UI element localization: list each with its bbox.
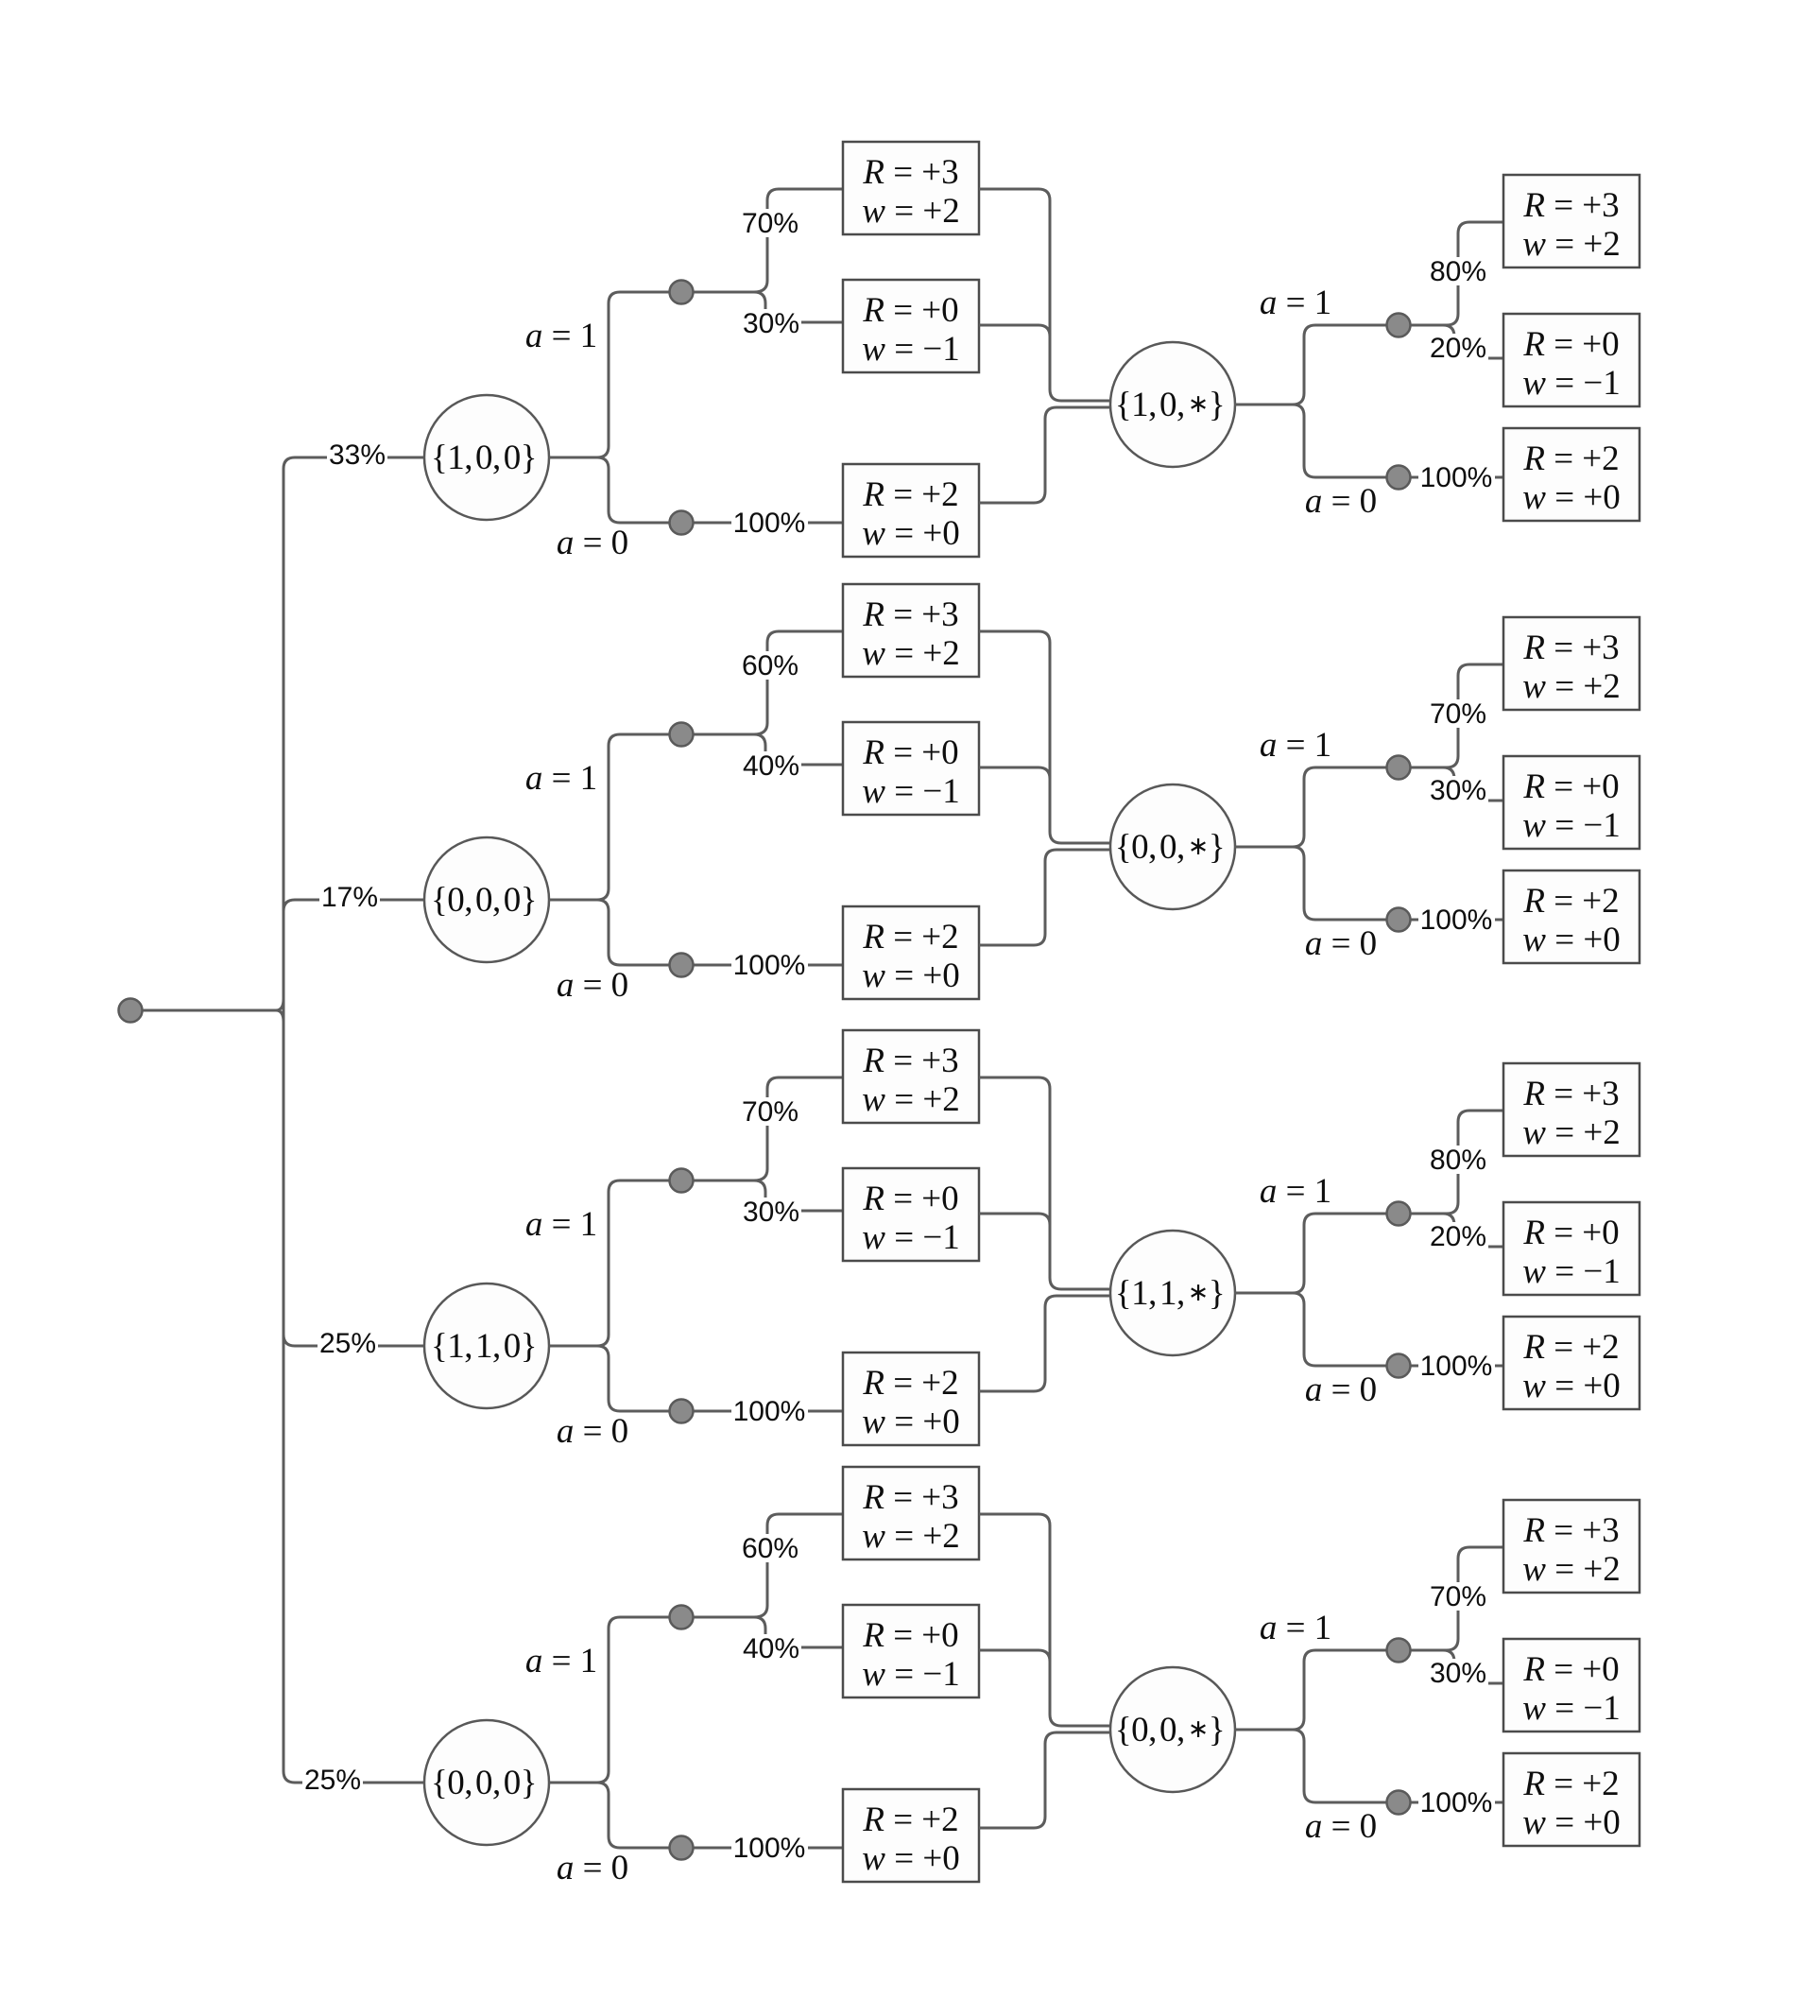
svg-text:w = +0: w = +0 (862, 514, 959, 553)
svg-text:70%: 70% (1430, 698, 1486, 730)
svg-text:100%: 100% (733, 1396, 806, 1427)
svg-text:R = +3: R = +3 (862, 153, 958, 192)
svg-text:R = +2: R = +2 (862, 918, 958, 956)
label 100% level2 branch 3 (1418, 1352, 1495, 1380)
svg-text:80%: 80% (1430, 1145, 1486, 1176)
svg-text:a = 0: a = 0 (1305, 1807, 1377, 1846)
wire box3 to next state branch 3 (979, 1296, 1111, 1391)
outcome box R=+0 w=-1 level2 branch 3 (1503, 1202, 1640, 1295)
outcome box R=+2 w=+0 level2 branch 2 (1503, 870, 1640, 963)
svg-text:R = +3: R = +3 (1522, 1511, 1619, 1550)
wire box1 to next state branch 1 (979, 189, 1111, 401)
svg-text:w = +2: w = +2 (862, 1080, 959, 1119)
svg-text:w = +2: w = +2 (1522, 225, 1620, 264)
svg-text:100%: 100% (1420, 1351, 1493, 1382)
wire 70% outcome level2 branch 2 (1411, 664, 1503, 767)
svg-text:a = 1: a = 1 (1260, 726, 1331, 765)
wire a=0 branch 1 (597, 457, 843, 523)
svg-text:60%: 60% (742, 1533, 798, 1564)
svg-text:R = +3: R = +3 (1522, 629, 1619, 667)
label 30% branch 1 (741, 309, 801, 337)
wire 30% outcome level2 branch 2 (1411, 767, 1503, 801)
label 100% a=0 branch 2 (731, 951, 808, 979)
label 70% branch 1 (740, 209, 800, 237)
chance dot a=1 branch 1 (670, 281, 694, 304)
svg-text:R = +2: R = +2 (862, 475, 958, 514)
chance dot a=0 branch 3 (670, 1400, 694, 1423)
wire a=1 branch 3 (549, 1180, 756, 1346)
label 25% branch 4 (302, 1766, 363, 1794)
svg-text:w = +0: w = +0 (862, 1403, 959, 1441)
wire root fork (276, 999, 283, 1022)
svg-text:w = −1: w = −1 (1522, 806, 1620, 845)
wire a=1 branch 2 (549, 734, 756, 900)
svg-text:{0,0,∗}: {0,0,∗} (1115, 828, 1225, 867)
svg-text:a = 1: a = 1 (525, 1205, 597, 1244)
wire box3 to next state branch 4 (979, 1732, 1111, 1828)
svg-text:R = +2: R = +2 (862, 1364, 958, 1403)
svg-text:w = +2: w = +2 (862, 634, 959, 673)
chance dot a=1 level2 branch 3 (1387, 1202, 1411, 1226)
svg-text:w = +0: w = +0 (862, 956, 959, 995)
label 33% branch 1 (327, 440, 387, 469)
outcome box R=+3 w=+2 level2 branch 1 (1503, 175, 1640, 267)
wire branch 4 from spine (295, 1782, 424, 1784)
label 80% level2 branch 1 (1428, 257, 1488, 285)
outcome box R=+0 w=-1 level2 branch 1 (1503, 314, 1640, 406)
label 30% level2 branch 4 (1428, 1659, 1488, 1687)
label 40% branch 4 (741, 1634, 801, 1663)
svg-text:w = −1: w = −1 (862, 1655, 959, 1694)
outcome box R=+3 w=+2 level2 branch 3 (1503, 1063, 1640, 1156)
wire 20% outcome level2 branch 3 (1411, 1214, 1503, 1247)
svg-text:R = +0: R = +0 (862, 1180, 958, 1218)
wire box2 to next state branch 3 (979, 1214, 1050, 1225)
label 60% branch 4 (740, 1534, 800, 1562)
chance dot a=0 level2 branch 4 (1387, 1791, 1411, 1815)
svg-text:100%: 100% (1420, 462, 1493, 493)
wire spine (283, 457, 295, 1783)
svg-text:R = +3: R = +3 (862, 1478, 958, 1517)
svg-text:70%: 70% (1430, 1581, 1486, 1612)
root chance node (119, 999, 143, 1023)
wire 80% outcome level2 branch 3 (1411, 1111, 1503, 1214)
chance dot a=1 branch 2 (670, 723, 694, 747)
outcome box R=+2 w=+0 level2 branch 3 (1503, 1317, 1640, 1409)
wire a=0 level2 branch 2 (1293, 847, 1503, 920)
state node {1,<tspan dx="3">1</tspan>,<tspan dx="3" font-size="27" dy="-4">∗</tspan><tspan dy="4">}</tspan> branch 3 (1110, 1231, 1235, 1355)
svg-text:a = 0: a = 0 (557, 1412, 628, 1451)
svg-text:w = −1: w = −1 (1522, 364, 1620, 403)
label 25% branch 3 (318, 1329, 378, 1357)
svg-text:a = 1: a = 1 (1260, 1172, 1331, 1211)
chance dot a=1 level2 branch 4 (1387, 1639, 1411, 1663)
outcome box R=+0 w=-1 branch 2 (843, 722, 979, 815)
wire root to spine (143, 1009, 276, 1012)
chance dot a=1 level2 branch 1 (1387, 314, 1411, 337)
svg-text:20%: 20% (1430, 1221, 1486, 1252)
wire 40% outcome branch 2 (754, 734, 843, 765)
outcome box R=+0 w=-1 branch 3 (843, 1168, 979, 1261)
wire a=1 level2 branch 1 (1234, 325, 1443, 405)
svg-text:{1,0,∗}: {1,0,∗} (1115, 386, 1225, 424)
chance dot a=0 level2 branch 1 (1387, 466, 1411, 490)
label 30% branch 3 (741, 1198, 801, 1226)
label 17% branch 2 (319, 883, 380, 911)
wire a=0 level2 branch 3 (1293, 1293, 1503, 1366)
svg-text:R = +0: R = +0 (1522, 767, 1619, 806)
svg-text:33%: 33% (329, 439, 386, 471)
wire box1 to next state branch 2 (979, 631, 1111, 843)
wire box3 to next state branch 1 (979, 407, 1111, 503)
wire box1 to next state branch 4 (979, 1514, 1111, 1726)
svg-text:R = +3: R = +3 (1522, 186, 1619, 225)
wire branch 1 from spine (295, 457, 424, 459)
state node {1,<tspan dx="3">1</tspan>,<tspan dx="3">0</tspan>} branch 3 (424, 1284, 549, 1408)
wire 80% outcome level2 branch 1 (1411, 222, 1503, 325)
outcome box R=+3 w=+2 branch 2 (843, 584, 979, 677)
svg-text:R = +2: R = +2 (1522, 882, 1619, 921)
svg-text:40%: 40% (743, 1633, 799, 1664)
svg-text:100%: 100% (733, 1833, 806, 1864)
svg-text:{1,0,0}: {1,0,0} (431, 439, 537, 477)
wire a=0 level2 branch 1 (1293, 405, 1503, 477)
wire box2 to next state branch 1 (979, 325, 1050, 336)
wire a=1 branch 4 (549, 1617, 756, 1783)
wire a=1 level2 branch 2 (1234, 767, 1443, 847)
svg-text:a = 1: a = 1 (1260, 1609, 1331, 1647)
svg-text:w = +2: w = +2 (1522, 1113, 1620, 1152)
svg-text:100%: 100% (733, 950, 806, 981)
wire branch 2 from spine (295, 899, 424, 902)
wire box2 to next state branch 4 (979, 1650, 1050, 1662)
svg-text:70%: 70% (742, 208, 798, 239)
chance dot a=0 level2 branch 3 (1387, 1354, 1411, 1378)
outcome box R=+2 w=+0 branch 2 (843, 906, 979, 999)
svg-text:a = 1: a = 1 (525, 759, 597, 798)
label 30% level2 branch 2 (1428, 776, 1488, 804)
svg-text:{0,0,0}: {0,0,0} (431, 881, 537, 920)
svg-text:{1,1,0}: {1,1,0} (431, 1327, 537, 1366)
wire 70% outcome level2 branch 4 (1411, 1547, 1503, 1650)
svg-text:30%: 30% (743, 1197, 799, 1228)
svg-text:R = +2: R = +2 (1522, 439, 1619, 478)
svg-text:100%: 100% (1420, 1787, 1493, 1818)
wire box2 to next state branch 2 (979, 767, 1050, 779)
label 60% branch 2 (740, 651, 800, 680)
svg-text:w = +0: w = +0 (1522, 478, 1620, 517)
svg-text:{0,0,∗}: {0,0,∗} (1115, 1711, 1225, 1749)
chance dot a=1 branch 4 (670, 1606, 694, 1629)
wire 40% outcome branch 4 (754, 1617, 843, 1647)
state node {1,<tspan dx="3">0</tspan>,<tspan dx="3" font-size="27" dy="-4">∗</tspan><tspan dy="4">}</tspan> branch 1 (1110, 342, 1235, 467)
svg-text:100%: 100% (1420, 905, 1493, 936)
wire a=1 branch 1 (549, 292, 756, 457)
outcome box R=+3 w=+2 level2 branch 4 (1503, 1500, 1640, 1593)
outcome box R=+2 w=+0 level2 branch 1 (1503, 428, 1640, 521)
chance dot a=0 branch 1 (670, 511, 694, 535)
svg-text:a = 0: a = 0 (557, 1849, 628, 1887)
wire 60% outcome branch 4 (754, 1514, 843, 1617)
svg-text:w = +0: w = +0 (862, 1839, 959, 1878)
label 100% level2 branch 2 (1418, 905, 1495, 934)
wire a=0 level2 branch 4 (1293, 1730, 1503, 1802)
svg-text:R = +0: R = +0 (862, 733, 958, 772)
svg-text:w = +2: w = +2 (862, 1517, 959, 1556)
svg-text:17%: 17% (321, 882, 378, 913)
label 70% level2 branch 4 (1428, 1582, 1488, 1611)
svg-text:70%: 70% (742, 1096, 798, 1128)
wire a=1 level2 branch 4 (1234, 1650, 1443, 1730)
svg-text:w = −1: w = −1 (862, 330, 959, 369)
wire 20% outcome level2 branch 1 (1411, 325, 1503, 358)
wire a=0 branch 3 (597, 1346, 843, 1411)
svg-text:R = +3: R = +3 (862, 1042, 958, 1080)
state node {0,<tspan dx="3">0</tspan>,<tspan dx="3">0</tspan>} branch 4 (424, 1720, 549, 1845)
label 20% level2 branch 3 (1428, 1222, 1488, 1250)
svg-text:a = 0: a = 0 (557, 966, 628, 1005)
wire 30% outcome level2 branch 4 (1411, 1650, 1503, 1683)
outcome box R=+3 w=+2 level2 branch 2 (1503, 617, 1640, 710)
svg-text:w = +0: w = +0 (1522, 921, 1620, 959)
svg-text:25%: 25% (319, 1328, 376, 1359)
svg-text:w = +2: w = +2 (1522, 1550, 1620, 1589)
outcome box R=+0 w=-1 level2 branch 2 (1503, 756, 1640, 849)
svg-text:R = +0: R = +0 (862, 291, 958, 330)
svg-text:R = +0: R = +0 (1522, 1650, 1619, 1689)
wire 30% outcome branch 3 (754, 1180, 843, 1211)
svg-text:w = −1: w = −1 (1522, 1252, 1620, 1291)
svg-text:w = −1: w = −1 (862, 772, 959, 811)
svg-text:R = +2: R = +2 (1522, 1765, 1619, 1803)
outcome box R=+0 w=-1 branch 1 (843, 280, 979, 372)
state node {0,<tspan dx="3">0</tspan>,<tspan dx="3">0</tspan>} branch 2 (424, 837, 549, 962)
svg-text:R = +2: R = +2 (1522, 1328, 1619, 1367)
wire box3 to next state branch 2 (979, 850, 1111, 945)
svg-text:R = +3: R = +3 (862, 595, 958, 634)
svg-text:60%: 60% (742, 650, 798, 681)
svg-text:w = +0: w = +0 (1522, 1803, 1620, 1842)
wire branch 3 from spine (295, 1345, 424, 1348)
state node {0,<tspan dx="3">0</tspan>,<tspan dx="3" font-size="27" dy="-4">∗</tspan><tspan dy="4">}</tspan> branch 4 (1110, 1667, 1235, 1792)
svg-text:a = 1: a = 1 (1260, 284, 1331, 322)
svg-text:80%: 80% (1430, 256, 1486, 287)
outcome box R=+3 w=+2 branch 4 (843, 1467, 979, 1559)
outcome box R=+0 w=-1 level2 branch 4 (1503, 1639, 1640, 1732)
svg-text:w = +2: w = +2 (862, 192, 959, 231)
outcome box R=+0 w=-1 branch 4 (843, 1605, 979, 1697)
label 70% branch 3 (740, 1097, 800, 1126)
wire 70% outcome branch 3 (754, 1077, 843, 1180)
svg-text:a = 0: a = 0 (1305, 924, 1377, 963)
wire spine fork branch 2 (283, 900, 295, 911)
label 70% level2 branch 2 (1428, 699, 1488, 728)
label 100% a=0 branch 4 (731, 1834, 808, 1862)
svg-text:R = +2: R = +2 (862, 1801, 958, 1839)
chance dot a=1 level2 branch 2 (1387, 756, 1411, 780)
chance dot a=0 branch 2 (670, 954, 694, 977)
svg-text:a = 0: a = 0 (557, 524, 628, 562)
svg-text:20%: 20% (1430, 333, 1486, 364)
chance dot a=0 branch 4 (670, 1836, 694, 1860)
label 100% level2 branch 1 (1418, 463, 1495, 491)
svg-text:R = +0: R = +0 (1522, 1214, 1619, 1252)
outcome box R=+2 w=+0 branch 3 (843, 1353, 979, 1445)
svg-text:w = +2: w = +2 (1522, 667, 1620, 706)
svg-text:w = −1: w = −1 (1522, 1689, 1620, 1728)
label 100% a=0 branch 3 (731, 1397, 808, 1425)
label 20% level2 branch 1 (1428, 334, 1488, 362)
label 40% branch 2 (741, 751, 801, 780)
outcome box R=+2 w=+0 branch 4 (843, 1789, 979, 1882)
label 100% a=0 branch 1 (731, 508, 808, 537)
outcome box R=+2 w=+0 branch 1 (843, 464, 979, 557)
outcome box R=+3 w=+2 branch 1 (843, 142, 979, 234)
chance dot a=1 branch 3 (670, 1169, 694, 1193)
outcome box R=+3 w=+2 branch 3 (843, 1030, 979, 1123)
svg-text:w = +0: w = +0 (1522, 1367, 1620, 1405)
state node {1,<tspan dx="3">0</tspan>,<tspan dx="3">0</tspan>} branch 1 (424, 395, 549, 520)
label 100% level2 branch 4 (1418, 1788, 1495, 1817)
svg-text:R = +3: R = +3 (1522, 1075, 1619, 1113)
wire box1 to next state branch 3 (979, 1077, 1111, 1289)
svg-text:40%: 40% (743, 750, 799, 782)
svg-text:30%: 30% (1430, 1658, 1486, 1689)
svg-text:w = −1: w = −1 (862, 1218, 959, 1257)
wire a=0 branch 4 (597, 1783, 843, 1848)
svg-text:R = +0: R = +0 (862, 1616, 958, 1655)
svg-text:a = 0: a = 0 (1305, 482, 1377, 521)
wire 30% outcome branch 1 (754, 292, 843, 322)
wire 60% outcome branch 2 (754, 631, 843, 734)
wire a=1 level2 branch 3 (1234, 1214, 1443, 1293)
svg-text:a = 1: a = 1 (525, 1642, 597, 1680)
svg-text:30%: 30% (743, 308, 799, 339)
wire 70% outcome branch 1 (754, 189, 843, 292)
svg-text:R = +0: R = +0 (1522, 325, 1619, 364)
svg-text:100%: 100% (733, 508, 806, 539)
svg-text:{0,0,0}: {0,0,0} (431, 1764, 537, 1802)
state node {0,<tspan dx="3">0</tspan>,<tspan dx="3" font-size="27" dy="-4">∗</tspan><tspan dy="4">}</tspan> branch 2 (1110, 784, 1235, 909)
svg-text:a = 1: a = 1 (525, 317, 597, 355)
wire spine fork branch 3 (283, 1335, 295, 1346)
svg-text:30%: 30% (1430, 775, 1486, 806)
wire a=0 branch 2 (597, 900, 843, 965)
svg-text:a = 0: a = 0 (1305, 1370, 1377, 1409)
outcome box R=+2 w=+0 level2 branch 4 (1503, 1753, 1640, 1846)
label 80% level2 branch 3 (1428, 1146, 1488, 1174)
svg-text:{1,1,∗}: {1,1,∗} (1115, 1274, 1225, 1313)
chance dot a=0 level2 branch 2 (1387, 908, 1411, 932)
svg-text:25%: 25% (304, 1765, 361, 1796)
